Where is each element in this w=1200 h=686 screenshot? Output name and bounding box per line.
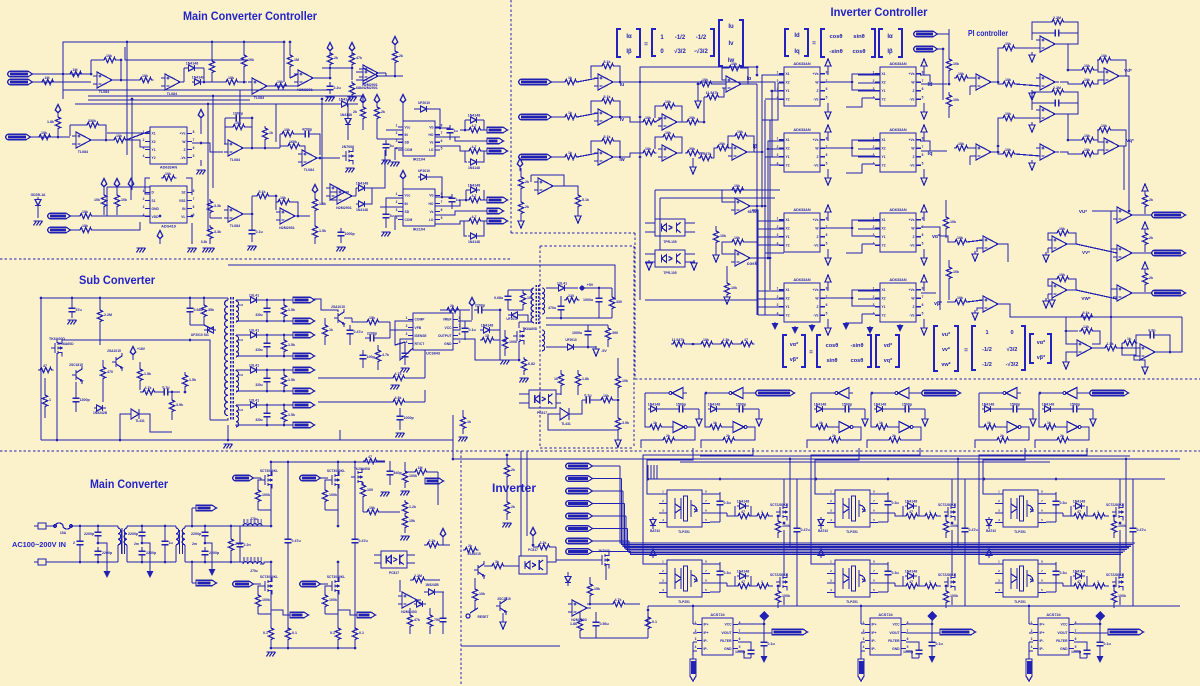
svg-text:8: 8: [922, 286, 924, 290]
svg-text:2200p: 2200p: [146, 551, 157, 555]
svg-text:0.8: 0.8: [239, 408, 243, 412]
svg-text:cosθ: cosθ: [852, 49, 865, 55]
res 1: [42, 393, 47, 409]
res 10k dn: [1001, 151, 1017, 156]
svg-text:5: 5: [1075, 645, 1077, 649]
res 20k: [685, 119, 701, 124]
cap 1500p: [901, 406, 913, 413]
res 10k: [724, 281, 729, 297]
wire: [46, 525, 55, 527]
svg-text:6: 6: [1075, 637, 1077, 641]
resistor 1k: [563, 79, 579, 84]
svg-text:5.1k: 5.1k: [604, 135, 611, 139]
svg-text:BAT43: BAT43: [650, 529, 660, 533]
res 1k: [982, 424, 998, 429]
wire: [386, 198, 403, 208]
arrow up: [1142, 222, 1148, 232]
svg-text:47: 47: [741, 580, 745, 584]
svg-text:12k: 12k: [1083, 325, 1089, 329]
flag VH3-: [566, 526, 593, 532]
wire: [518, 341, 520, 360]
resistor 3.3k: [207, 199, 212, 215]
power diamond: [392, 36, 398, 48]
res 10k: [365, 509, 381, 514]
svg-text:13L41: 13L41: [557, 282, 567, 286]
svg-text:OUTPUT: OUTPUT: [438, 334, 452, 338]
wire left long: [313, 299, 338, 312]
viout wire: [906, 632, 940, 634]
svg-text:1.8k: 1.8k: [570, 622, 577, 626]
svg-text:1k: 1k: [1047, 421, 1051, 425]
power: [530, 527, 536, 539]
wire: [185, 525, 265, 527]
wire: [95, 139, 106, 141]
wire: [204, 81, 224, 83]
rail stubs: [647, 465, 649, 479]
svg-text:10k: 10k: [720, 234, 726, 238]
res 2k: [827, 437, 843, 442]
wire: [979, 392, 1002, 394]
svg-text:Vb: Vb: [429, 194, 433, 198]
svg-text:6: 6: [459, 332, 461, 336]
resistor 1.5k: [312, 197, 317, 213]
wire: [399, 580, 401, 592]
svg-text:ISENSE: ISENSE: [415, 334, 428, 338]
svg-text:1N4148: 1N4148: [814, 403, 827, 407]
res 1.5k: [182, 373, 187, 389]
wire B pin feeds c2: [858, 82, 880, 84]
ground: [224, 444, 233, 449]
wire drain: [1119, 498, 1121, 506]
svg-text:3: 3: [143, 205, 145, 209]
res 200n: [366, 335, 378, 342]
svg-text:6: 6: [826, 303, 828, 307]
svg-text:vβ*: vβ*: [1037, 355, 1046, 361]
svg-text:UF2010: UF2010: [506, 317, 518, 321]
ground: [197, 170, 206, 175]
wire: [1067, 243, 1076, 245]
wire: [917, 427, 921, 438]
mosfet SCT2280KE: [944, 504, 955, 521]
-5V arrow: [593, 346, 599, 356]
svg-text:10k: 10k: [116, 134, 122, 138]
svg-text:10k: 10k: [1005, 112, 1011, 116]
power +: [157, 230, 163, 242]
wire B ibeta: [747, 151, 762, 153]
capacitor 3u: [383, 140, 390, 152]
svg-text:-Vs: -Vs: [909, 98, 914, 102]
snubber 1N4148: [1073, 503, 1085, 509]
svg-text:SD: SD: [405, 141, 410, 145]
svg-text:SCT3080KL: SCT3080KL: [327, 469, 345, 473]
svg-text:Iq: Iq: [794, 49, 800, 55]
inverter gate tri: [1059, 388, 1081, 399]
vcc wire: [906, 623, 932, 625]
svg-text:1N4148: 1N4148: [905, 570, 918, 574]
svg-text:5: 5: [459, 340, 461, 344]
wire: [577, 207, 579, 214]
left bus: [1028, 606, 1030, 624]
cap 1000u: [596, 294, 603, 306]
svg-text:8: 8: [193, 130, 195, 134]
svg-text:-Vs: -Vs: [909, 244, 914, 248]
arrow: [646, 260, 652, 270]
svg-text:10k: 10k: [228, 76, 234, 80]
wire: [580, 559, 598, 561]
arrow: [1142, 364, 1148, 374]
wire from subconv: [452, 440, 454, 459]
svg-text:TLP251: TLP251: [1014, 530, 1026, 534]
flag S1: [487, 138, 504, 144]
svg-text:100k: 100k: [329, 493, 337, 497]
svg-text:7: 7: [193, 197, 195, 201]
wire: [1111, 210, 1117, 212]
res 9.1k: [1079, 314, 1095, 319]
svg-text:6.82: 6.82: [528, 362, 535, 366]
transformer T1 core: [231, 297, 234, 420]
svg-text:2: 2: [777, 295, 779, 299]
svg-text:6: 6: [826, 87, 828, 91]
wire B vert 770: [769, 120, 771, 290]
transistor 2SA1015: [474, 561, 484, 579]
svg-text:1.5k: 1.5k: [288, 413, 295, 417]
svg-text:10k: 10k: [1084, 134, 1090, 138]
wire: [337, 462, 339, 475]
svg-text:2k: 2k: [1149, 276, 1153, 280]
ground: [188, 248, 197, 253]
svg-text:4.7: 4.7: [472, 194, 477, 198]
svg-text:4.7k: 4.7k: [382, 353, 389, 357]
svg-text:1: 1: [761, 510, 763, 514]
svg-text:+Vs: +Vs: [909, 138, 915, 142]
section border dashed: [0, 258, 511, 260]
svg-text:6: 6: [922, 233, 924, 237]
res 6.82: [521, 357, 526, 373]
svg-text:2: 2: [777, 225, 779, 229]
svg-text:5: 5: [826, 162, 828, 166]
svg-text:Y1: Y1: [786, 235, 790, 239]
wire: [691, 427, 695, 438]
wire top feedback: [63, 42, 284, 99]
wire: [886, 408, 901, 410]
cap: [402, 349, 409, 361]
PI op-amp p: [1036, 144, 1059, 160]
op-amp comp2: [1113, 285, 1136, 301]
wire: [645, 222, 655, 224]
res sum1: [1080, 67, 1096, 72]
wire: [720, 408, 735, 410]
svg-text:330: 330: [616, 300, 622, 304]
wire: [116, 79, 138, 81]
switch U8 ADG419: [150, 186, 187, 223]
wire vq chain: [1119, 146, 1124, 190]
res 15k: [402, 514, 407, 530]
res 15k: [365, 319, 381, 324]
wire: [560, 370, 562, 372]
svg-text:330u: 330u: [255, 383, 262, 387]
svg-text:1k: 1k: [819, 421, 823, 425]
flag Q2L: [487, 218, 508, 224]
svg-text:Iq: Iq: [928, 151, 933, 157]
svg-text:1k: 1k: [1127, 337, 1131, 341]
svg-text:3: 3: [1031, 637, 1033, 641]
res 2k: [504, 463, 509, 479]
res 3.9k: [169, 398, 174, 414]
svg-text:2200p: 2200p: [209, 551, 220, 555]
cap 0.47u: [285, 535, 292, 547]
PI op-amp in: [972, 74, 995, 90]
ground: [382, 160, 391, 165]
diode 1N4148: [468, 233, 480, 239]
res 2k: [463, 547, 479, 552]
svg-text:-Vs: -Vs: [813, 244, 818, 248]
op-amp U12 N2M2901: [359, 65, 382, 81]
driver TLP251 21: [835, 490, 870, 527]
wire B pin feeds r2: [770, 164, 784, 166]
op-amp Ialpha: [722, 76, 745, 92]
svg-text:2k: 2k: [1149, 236, 1153, 240]
svg-text:Z: Z: [912, 305, 914, 309]
svg-text:1N4148: 1N4148: [982, 403, 995, 407]
arrow gnd: [695, 98, 701, 108]
svg-text:1.8k: 1.8k: [582, 377, 589, 381]
arrow: [518, 218, 524, 228]
power diamond: [1095, 611, 1105, 621]
op-amp U10 N2M2901: [276, 208, 299, 224]
svg-text:HO: HO: [429, 133, 434, 137]
op-amp sin: [731, 198, 754, 214]
res 0.1: [335, 626, 340, 642]
resistor 4.7: [467, 218, 483, 223]
wire row3 inputs: [758, 220, 784, 222]
res 10k: [599, 397, 615, 402]
svg-text:4.7: 4.7: [472, 215, 477, 219]
wire vert x322: [321, 99, 323, 205]
svg-text:GND: GND: [152, 207, 160, 211]
op-amp sum2: [658, 114, 681, 130]
wire vert x213: [212, 96, 214, 188]
svg-text:Vs: Vs: [429, 141, 433, 145]
svg-text:20k: 20k: [248, 58, 254, 62]
vert bus: [757, 221, 759, 315]
svg-text:10k: 10k: [731, 286, 737, 290]
svg-text:5: 5: [739, 645, 741, 649]
opto PC817 D: [381, 551, 407, 568]
diode BAT43: [986, 546, 992, 558]
svg-text:68k: 68k: [356, 86, 362, 90]
svg-text:47: 47: [1077, 580, 1081, 584]
svg-text:10k: 10k: [953, 62, 959, 66]
svg-text:1.5k: 1.5k: [144, 372, 151, 376]
svg-text:VCC: VCC: [1061, 623, 1069, 627]
svg-text:5.1k: 5.1k: [259, 190, 266, 194]
ground: [326, 97, 335, 102]
comp input vertical bus: [1110, 211, 1112, 345]
svg-text:10k: 10k: [622, 379, 628, 383]
svg-text:Sub Converter: Sub Converter: [79, 273, 155, 287]
svg-text:13L41: 13L41: [249, 364, 259, 368]
svg-text:-√3/2: -√3/2: [1006, 361, 1019, 368]
res 2.2M fb: [1050, 89, 1066, 94]
power diamond: [400, 170, 406, 182]
res 10k: [520, 291, 525, 307]
svg-text:10k: 10k: [142, 74, 148, 78]
flag vq* ref: [914, 46, 938, 52]
power +18V: [130, 346, 136, 358]
wire: [508, 289, 533, 291]
res 15k: [587, 582, 592, 598]
res 4.7k: [391, 375, 407, 380]
svg-text:2: 2: [396, 200, 398, 204]
svg-text:3.9k: 3.9k: [622, 421, 629, 425]
inner dashed box aux supply: [540, 245, 634, 247]
svg-text:2m: 2m: [192, 542, 197, 546]
inductor 270u b: [243, 562, 262, 564]
res 10k: [698, 81, 714, 86]
svg-text:470: 470: [107, 370, 113, 374]
wire: [645, 253, 655, 255]
power +: [55, 104, 61, 116]
res 2.2M fb: [1050, 19, 1066, 24]
svg-text:vβ*: vβ*: [790, 357, 799, 363]
power: [517, 158, 523, 170]
inverter gate tri: [725, 388, 747, 399]
svg-text:0.3u: 0.3u: [1060, 501, 1067, 505]
diode: [414, 601, 426, 607]
flag sense out: [1108, 629, 1144, 635]
diode 1N4148: [648, 406, 660, 412]
power: [440, 528, 446, 540]
svg-text:2: 2: [873, 145, 875, 149]
wire: [435, 196, 442, 198]
svg-text:8: 8: [193, 189, 195, 193]
svg-text:2200p: 2200p: [475, 304, 486, 308]
wire: [295, 215, 310, 217]
driver TLP251 11: [667, 490, 702, 527]
wire B pin feeds rows34: [765, 252, 784, 254]
op-amp sum VV*: [1048, 236, 1071, 252]
op-amp N2M2403: [398, 592, 421, 608]
aux transformer core: [536, 285, 539, 325]
power diamond: [927, 611, 937, 621]
ground: [337, 247, 346, 252]
svg-text:100k: 100k: [782, 524, 790, 528]
op-amp sum VW*: [1048, 282, 1071, 298]
resistor 10k: [78, 213, 94, 218]
resistor 1k: [563, 154, 579, 159]
svg-text:1N4148: 1N4148: [1073, 500, 1086, 504]
wire: [751, 427, 755, 438]
svg-text:UF2010: UF2010: [418, 169, 430, 173]
svg-text:+18V: +18V: [137, 347, 146, 351]
svg-text:47: 47: [909, 510, 913, 514]
svg-text:TK6A60D: TK6A60D: [523, 327, 538, 331]
res 75k: [427, 613, 432, 629]
wire: [368, 150, 385, 204]
wire drain: [951, 498, 953, 506]
half bridge vertical: [1119, 479, 1121, 506]
diode 1N4148: [186, 65, 198, 71]
flag V PWM+: [922, 390, 961, 396]
svg-text:BAT43: BAT43: [650, 545, 660, 549]
res 100k: [502, 335, 507, 351]
res 1: [1091, 583, 1107, 588]
svg-text:√3/2: √3/2: [1007, 346, 1018, 353]
svg-text:10k: 10k: [94, 198, 100, 202]
svg-text:TLP251: TLP251: [678, 600, 690, 604]
op-amp Iu: [594, 74, 617, 90]
svg-text:BAT43: BAT43: [986, 545, 996, 549]
power +: [101, 178, 107, 190]
svg-text:100k: 100k: [509, 340, 517, 344]
phase node wire: [783, 530, 785, 576]
aux secondary coil: [542, 288, 545, 314]
input flag Vin: [6, 134, 31, 140]
svg-text:=: =: [964, 347, 968, 354]
svg-text:1N4148: 1N4148: [192, 76, 205, 80]
svg-text:0.1u: 0.1u: [584, 394, 591, 398]
svg-text:6: 6: [922, 153, 924, 157]
svg-text:100k: 100k: [782, 594, 790, 598]
svg-text:1: 1: [1097, 580, 1099, 584]
ground: [401, 491, 410, 496]
svg-text:X2: X2: [882, 297, 886, 301]
input flag Wsense: [519, 154, 552, 160]
svg-text:Y2: Y2: [786, 244, 790, 248]
svg-text:100k: 100k: [950, 524, 958, 528]
svg-text:-Vs: -Vs: [180, 156, 185, 160]
top rail inverter: [648, 478, 1165, 480]
inter-column wires: [825, 81, 852, 83]
wire: [660, 408, 675, 410]
svg-text:1N4148: 1N4148: [468, 240, 480, 244]
svg-text:6: 6: [441, 208, 443, 212]
diode BAT43: [818, 546, 824, 558]
flag S2: [357, 612, 376, 618]
wire drain: [270, 462, 272, 475]
cap 1300p: [73, 394, 80, 406]
res 1: [923, 513, 939, 518]
wire: [262, 525, 271, 527]
svg-text:ACS724: ACS724: [878, 613, 893, 617]
capacitor 1u: [447, 125, 454, 137]
svg-text:IP-: IP-: [872, 639, 876, 643]
svg-text:10k: 10k: [82, 210, 88, 214]
svg-text:+Vs: +Vs: [813, 218, 819, 222]
svg-text:1: 1: [396, 192, 398, 196]
res 10k up: [1001, 115, 1017, 120]
svg-text:VIOUT: VIOUT: [721, 631, 731, 635]
svg-text:UF2010: UF2010: [565, 338, 577, 342]
res 2k v: [1142, 231, 1147, 247]
wire Id: [921, 83, 947, 85]
svg-text:1500p: 1500p: [1010, 403, 1021, 407]
svg-text:0.47u: 0.47u: [969, 528, 978, 532]
mid transistor 2SA1015: [334, 309, 344, 327]
arrow up: [1142, 184, 1148, 194]
wire E long2: [680, 461, 1050, 463]
multiplier U5 AD633AN: [150, 127, 187, 164]
svg-text:100k: 100k: [409, 474, 417, 478]
svg-text:UC3843: UC3843: [426, 352, 440, 356]
svg-text:Y1: Y1: [882, 155, 886, 159]
op-amp vbeta buf: [979, 296, 1002, 312]
wire ip-: [693, 641, 697, 643]
svg-text:VIOUT: VIOUT: [889, 631, 899, 635]
svg-text:FILTER: FILTER: [888, 639, 900, 643]
wire B bottom bus: [645, 299, 757, 301]
gnd arrow: [104, 571, 111, 578]
